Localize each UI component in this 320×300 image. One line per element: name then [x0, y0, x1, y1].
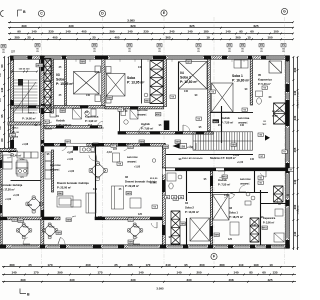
svg-text:230: 230 — [143, 30, 148, 34]
pier — [41, 59, 45, 71]
window top — [168, 56, 203, 59]
cabinet row left apt — [17, 152, 38, 158]
dining table mid apartment — [89, 162, 107, 181]
svg-text:B: B — [27, 292, 30, 296]
top dim line detail — [8, 30, 294, 35]
svg-text:P: 22,00 m²: P: 22,00 m² — [57, 185, 71, 189]
window mark P2 — [157, 44, 162, 48]
window bottom — [235, 245, 249, 248]
window bottom — [256, 245, 265, 248]
bottom wall pier — [93, 244, 101, 248]
svg-text:140: 140 — [86, 94, 91, 97]
svg-text:SKLONIŠTE IZVAN: SKLONIŠTE IZVAN — [297, 91, 300, 109]
svg-text:170: 170 — [33, 271, 38, 275]
label SM1 — [65, 140, 71, 144]
window mark P3 left — [1, 45, 6, 49]
svg-text:140: 140 — [293, 90, 297, 95]
label MK15 — [36, 64, 43, 68]
wc small central — [167, 173, 182, 189]
svg-text:170: 170 — [146, 263, 151, 267]
dark wall segment — [140, 143, 150, 146]
markers bottom-right — [245, 192, 255, 205]
balcony door arc 3 — [133, 237, 140, 244]
label S7 — [288, 168, 293, 172]
dark wall segment — [44, 143, 54, 146]
corridor wall main — [41, 143, 165, 146]
bottom wall pier — [0, 244, 6, 248]
left wall pier 2 — [10, 140, 14, 150]
svg-text:Soba 2: Soba 2 — [185, 205, 194, 209]
label SM5 — [214, 233, 220, 237]
svg-text:V18a: V18a — [20, 159, 26, 161]
grid bubble E — [161, 10, 167, 16]
wall bottom apartments — [210, 171, 212, 245]
svg-text:230: 230 — [293, 115, 297, 120]
wall central top — [164, 59, 167, 107]
svg-text:SM2: SM2 — [175, 142, 180, 144]
wc fixtures right — [256, 91, 263, 104]
svg-text:RAZVODNI: RAZVODNI — [127, 156, 138, 159]
dark wall segment p4 — [130, 107, 138, 109]
party wall 1 — [41, 59, 44, 245]
svg-text:405: 405 — [81, 30, 86, 34]
door stair hall — [218, 171, 225, 178]
circle mark — [152, 159, 156, 163]
left dim line inner — [8, 56, 10, 149]
sofa left living — [57, 196, 73, 207]
label MK1 mid — [156, 113, 162, 117]
label SM3 — [145, 99, 151, 103]
label SM1 — [231, 143, 237, 147]
right wall pier — [285, 84, 289, 92]
dark wall segment — [42, 217, 54, 220]
svg-text:+1,00: +1,00 — [134, 166, 141, 169]
apartment wall top-right — [208, 59, 211, 131]
svg-text:Lođa: Lođa — [134, 226, 140, 229]
svg-text:P: 13,95 m²: P: 13,95 m² — [127, 80, 145, 84]
svg-text:200: 200 — [199, 263, 204, 267]
svg-text:P: 12,80 m²: P: 12,80 m² — [180, 80, 198, 84]
label 05 bottom-center — [172, 196, 177, 199]
elevator shaft left with X bracing — [44, 59, 51, 113]
top wall pier — [95, 55, 108, 59]
grid axis line — [102, 17, 104, 264]
window mark P1 right — [281, 44, 286, 48]
left wall pier — [10, 100, 14, 108]
dark wall segment — [0, 217, 7, 220]
svg-text:02: 02 — [125, 175, 128, 179]
right exterior wall — [286, 56, 290, 248]
svg-text:625: 625 — [189, 24, 194, 28]
ostava wall — [0, 151, 16, 153]
svg-text:405: 405 — [114, 35, 119, 39]
wall soba1/kupaonica — [250, 59, 252, 105]
svg-text:625: 625 — [253, 24, 258, 28]
dining table left apartment — [26, 196, 42, 213]
bath fixtures bottom right — [274, 198, 284, 242]
cabinet row left living — [45, 152, 51, 179]
svg-text:SM3: SM3 — [12, 220, 17, 222]
bottom wall pier — [266, 244, 271, 248]
svg-text:190: 190 — [253, 263, 258, 267]
window right — [286, 174, 289, 198]
wall small rooms bottom — [186, 171, 188, 201]
bed top-left soba — [74, 72, 100, 95]
svg-text:140: 140 — [11, 271, 16, 275]
label SM3 — [128, 145, 134, 149]
svg-text:P: 7,55 m²: P: 7,55 m² — [218, 182, 230, 186]
window right — [286, 93, 289, 99]
svg-text:SM2: SM2 — [60, 111, 65, 113]
label 04 bottom-center — [179, 196, 184, 199]
grid axis line — [213, 17, 215, 264]
label SM3 — [80, 60, 86, 64]
partition wall left living — [52, 150, 54, 192]
svg-text:ORMARIĆ: ORMARIĆ — [127, 160, 137, 163]
wardrobe soba 03 — [46, 61, 52, 81]
label V8 — [117, 162, 122, 166]
svg-text:SKLONIŠTE: SKLONIŠTE — [272, 110, 284, 113]
window top — [45, 56, 61, 59]
dark wall segment p4 — [80, 106, 88, 109]
label V6 — [242, 108, 247, 112]
staircase DVS-1 treads — [13, 80, 38, 113]
door soba1 bottom — [239, 185, 246, 192]
top wall pier — [261, 55, 269, 59]
door soba2 bottom — [222, 193, 228, 199]
bottom dim line big — [2, 278, 296, 283]
top wall pier — [286, 55, 290, 59]
svg-text:365: 365 — [165, 35, 170, 39]
top dim line segments — [8, 24, 294, 29]
top wall pier — [40, 55, 45, 59]
shower top right — [269, 61, 282, 73]
svg-text:DVS-1 811-52 60x16: DVS-1 811-52 60x16 — [182, 158, 203, 160]
label V11 — [111, 144, 116, 147]
hall wall left apt lower — [44, 126, 102, 129]
svg-text:140: 140 — [233, 271, 238, 275]
top dim line detail 2 — [8, 35, 294, 40]
svg-text:S8: S8 — [181, 144, 185, 148]
svg-text:340: 340 — [165, 263, 170, 267]
svg-text:+1,08: +1,08 — [22, 143, 29, 146]
svg-text:SM3: SM3 — [126, 193, 131, 195]
dark wall segment p4 — [60, 143, 68, 146]
svg-text:F: F — [213, 255, 215, 259]
svg-text:SM4: SM4 — [66, 219, 71, 222]
svg-text:85: 85 — [249, 271, 253, 275]
label S7 — [259, 155, 264, 159]
svg-text:Soba 1: Soba 1 — [229, 210, 238, 214]
svg-text:ORMARIĆ: ORMARIĆ — [240, 182, 250, 185]
svg-text:290: 290 — [57, 271, 62, 275]
bottom wall pier — [60, 244, 66, 248]
svg-text:Soba 2: Soba 2 — [180, 75, 191, 79]
door living left — [60, 144, 67, 151]
partition stair/soba03 — [65, 59, 67, 105]
svg-text:Soba: Soba — [127, 76, 135, 80]
svg-text:Kupaonica: Kupaonica — [258, 77, 272, 81]
svg-text:140: 140 — [127, 30, 132, 34]
svg-text:06 WC: 06 WC — [150, 182, 157, 184]
svg-text:P: 17,20 m²: P: 17,20 m² — [1, 187, 15, 191]
svg-text:95: 95 — [0, 114, 4, 118]
svg-text:MK1: MK1 — [262, 228, 267, 230]
svg-text:Ostava: Ostava — [10, 150, 19, 153]
label SM6 — [128, 218, 134, 222]
svg-text:290: 290 — [293, 204, 297, 209]
svg-text:GRANICA: GRANICA — [297, 205, 300, 214]
svg-text:SM3: SM3 — [80, 62, 85, 64]
section flag B bottom — [20, 289, 30, 297]
label SM2 — [175, 140, 181, 144]
dark wall segment — [210, 226, 212, 236]
svg-text:IZVAN: IZVAN — [272, 114, 278, 117]
dark wall segment p4 — [0, 205, 2, 213]
svg-text:140: 140 — [65, 30, 70, 34]
dark wall segment p4 — [56, 126, 64, 129]
svg-text:ORMARIĆ: ORMARIĆ — [50, 168, 60, 171]
label V4 — [173, 197, 178, 201]
dark wall segment — [118, 132, 126, 135]
svg-text:25: 25 — [28, 263, 32, 267]
door living left/mid — [89, 154, 97, 161]
right wall pier — [285, 100, 289, 126]
top exterior wall — [11, 56, 290, 59]
loggia table left 2 — [43, 223, 58, 239]
cabinet top-left hall — [50, 108, 56, 117]
label V10 — [93, 143, 98, 147]
svg-text:280: 280 — [219, 263, 224, 267]
svg-text:SM5: SM5 — [214, 235, 219, 237]
svg-text:Hodnik: Hodnik — [141, 122, 150, 126]
top wall pier — [153, 55, 166, 59]
bottom wall pier — [40, 244, 45, 248]
window bottom — [70, 245, 92, 248]
svg-text:SM5: SM5 — [128, 242, 133, 244]
right dim line — [292, 56, 296, 250]
bed soba 13,95 — [106, 74, 125, 97]
svg-text:90: 90 — [17, 30, 21, 34]
door soba1 bottom 2 — [229, 193, 235, 199]
svg-text:Kupaonica: Kupaonica — [263, 217, 276, 220]
svg-text:95: 95 — [239, 30, 243, 34]
svg-text:B: B — [23, 10, 26, 14]
svg-text:MK1: MK1 — [213, 121, 218, 123]
svg-text:G: G — [283, 10, 286, 14]
top wall pier — [28, 55, 33, 59]
hodnik top-right wall — [210, 112, 253, 114]
label SM4 — [66, 218, 72, 222]
svg-text:Hodnik: Hodnik — [221, 116, 230, 120]
label MK1 — [222, 175, 228, 179]
window top — [229, 56, 247, 59]
stair direction arrow S8 — [173, 143, 187, 148]
loggia door arc — [151, 222, 157, 228]
svg-text:+1,00: +1,00 — [68, 170, 75, 173]
hall wall right — [254, 171, 256, 192]
svg-text:+1,00: +1,00 — [233, 154, 240, 157]
label MK1 — [262, 226, 268, 230]
svg-text:170: 170 — [47, 263, 52, 267]
top wall pier — [204, 55, 211, 59]
label 06 — [258, 181, 263, 185]
svg-text:140: 140 — [293, 231, 297, 236]
label V2 — [118, 108, 123, 112]
black arrow marker corridor right — [265, 135, 270, 141]
door ostava — [7, 152, 14, 158]
svg-text:120 25 120: 120 25 120 — [19, 69, 31, 71]
dark wall segment p4 — [175, 132, 183, 135]
svg-text:Kupaonica: Kupaonica — [85, 114, 99, 118]
grid bubble D — [99, 10, 105, 16]
svg-text:60: 60 — [0, 138, 4, 142]
svg-text:SM3: SM3 — [145, 101, 150, 103]
window bottom — [48, 245, 59, 248]
pier — [41, 104, 45, 114]
loggia table left — [17, 223, 32, 239]
svg-text:290: 290 — [21, 24, 26, 28]
stair right wall line — [39, 59, 41, 113]
left step wall — [0, 149, 16, 152]
window bottom — [272, 245, 284, 248]
bed soba 2 bottom — [190, 218, 210, 241]
right dim line outer — [297, 56, 299, 250]
svg-text:140: 140 — [250, 158, 255, 161]
label SM3 — [12, 218, 18, 222]
svg-text:620: 620 — [130, 24, 135, 28]
duct shaft central with X bracing — [150, 61, 163, 104]
label V3 — [210, 90, 215, 94]
svg-text:405: 405 — [52, 35, 57, 39]
svg-text:SM5: SM5 — [56, 233, 61, 235]
bottom wall pier — [250, 244, 255, 248]
window mark P2 — [35, 44, 40, 48]
door hall mid — [190, 143, 196, 150]
bottom wall pier — [228, 244, 233, 248]
hall wall — [221, 106, 223, 143]
label V5 — [196, 117, 201, 121]
svg-text:boravak i kuhinja: boravak i kuhinja — [1, 183, 23, 187]
svg-text:P: 15,95 m²: P: 15,95 m² — [56, 82, 74, 86]
wall below stairs — [8, 122, 41, 125]
svg-text:140: 140 — [225, 30, 230, 34]
svg-text:MK15: MK15 — [37, 65, 44, 67]
door hodnik 1 — [45, 122, 52, 129]
svg-text:260: 260 — [235, 35, 240, 39]
label SM2 living — [58, 192, 64, 196]
horiz wall left apt — [11, 106, 106, 109]
svg-text:140: 140 — [31, 30, 36, 34]
svg-text:425: 425 — [267, 278, 272, 282]
window top — [110, 56, 152, 59]
label SM6 — [180, 222, 186, 226]
svg-text:811-32: 811-32 — [12, 132, 19, 134]
svg-text:120: 120 — [228, 238, 233, 241]
shaft right wall — [51, 59, 53, 113]
svg-text:245: 245 — [169, 30, 174, 34]
left exterior wall lower — [0, 150, 2, 245]
stair hall thick black wall — [162, 168, 287, 172]
svg-text:430: 430 — [68, 24, 73, 28]
svg-text:+1,00: +1,00 — [13, 194, 20, 197]
dark wall segment — [210, 176, 212, 186]
grid axis line — [41, 17, 43, 264]
dark wall segment p4 — [28, 106, 36, 109]
svg-text:-0,02: -0,02 — [106, 151, 112, 154]
svg-text:MK1: MK1 — [156, 114, 161, 116]
svg-text:SM6: SM6 — [18, 221, 23, 223]
sofa vertical left living — [86, 193, 96, 213]
svg-text:107: 107 — [113, 148, 118, 151]
balcony door arc 2 — [58, 237, 65, 244]
svg-text:+1,00: +1,00 — [5, 198, 12, 201]
svg-text:SM1: SM1 — [186, 62, 191, 64]
svg-text:430: 430 — [69, 278, 74, 282]
wardrobe bottom right — [230, 222, 239, 235]
left dim line — [0, 56, 5, 149]
svg-text:05: 05 — [258, 73, 261, 77]
window right — [286, 128, 289, 161]
grid bubble partial A left edge — [0, 11, 3, 17]
wardrobe soba1 top-right — [234, 60, 248, 68]
wall soba2 left — [178, 62, 180, 131]
corridor door gap — [66, 143, 86, 146]
loggia table mid — [128, 223, 143, 239]
svg-text:P: 13,00 m²: P: 13,00 m² — [185, 210, 199, 214]
svg-text:SM3: SM3 — [128, 147, 133, 149]
svg-text:+1,00: +1,00 — [187, 146, 194, 149]
label SM3 — [107, 96, 113, 100]
svg-text:140: 140 — [252, 224, 257, 227]
kitchen counter left apt — [17, 160, 27, 176]
svg-text:SM3: SM3 — [107, 98, 112, 100]
svg-text:P: 14,80 m²: P: 14,80 m² — [22, 117, 36, 121]
svg-text:140: 140 — [293, 179, 297, 184]
svg-text:SM1: SM1 — [65, 142, 70, 144]
window bottom — [12, 245, 38, 248]
kitchen counter mid apartment — [80, 147, 96, 153]
svg-text:140: 140 — [184, 90, 189, 93]
label SM6 — [18, 219, 24, 223]
svg-text:Soba 1: Soba 1 — [232, 74, 243, 78]
bottom dim line mid — [2, 271, 296, 276]
bottom wall pier — [208, 244, 213, 248]
svg-text:SM1: SM1 — [231, 145, 236, 147]
svg-text:408: 408 — [228, 278, 233, 282]
door soba2 — [183, 125, 190, 132]
svg-text:+1,00: +1,00 — [67, 151, 74, 154]
window bottom — [103, 245, 117, 248]
svg-text:P: 3,00 m²: P: 3,00 m² — [263, 220, 274, 224]
window right — [286, 208, 289, 238]
label S6 — [258, 133, 263, 137]
cabinet mid apt — [113, 153, 120, 162]
kitchen cabinets bottom-left — [16, 162, 28, 174]
svg-text:Hodnik: Hodnik — [56, 118, 65, 122]
svg-text:RAZVODNI: RAZVODNI — [240, 178, 251, 181]
window top-left — [14, 56, 27, 59]
pier — [41, 140, 45, 152]
bed soba 1 bottom-right — [213, 195, 230, 221]
svg-text:330: 330 — [186, 278, 191, 282]
svg-text:405: 405 — [293, 147, 297, 152]
svg-text:WC: WC — [263, 124, 267, 126]
svg-text:IM: IM — [166, 197, 169, 199]
bed soba 1 top-right — [212, 83, 234, 112]
svg-text:ORMARIĆ: ORMARIĆ — [238, 121, 248, 124]
svg-text:Dnevni boravak i kuhinja: Dnevni boravak i kuhinja — [57, 181, 89, 185]
